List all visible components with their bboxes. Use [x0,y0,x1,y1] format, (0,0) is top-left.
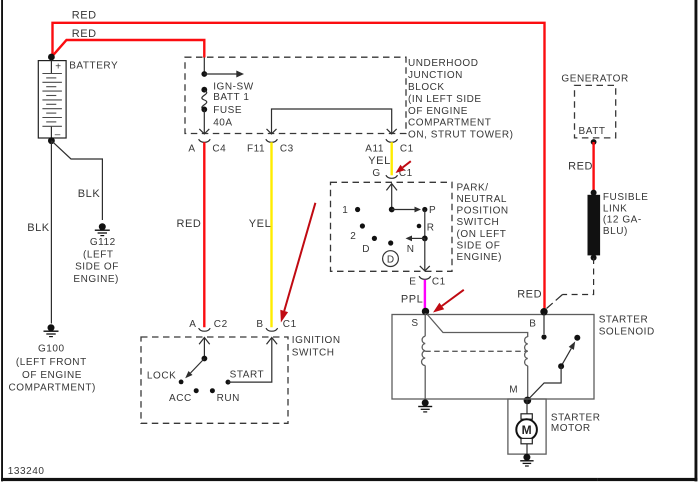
solenoid feed S to hold-in coil [427,314,528,338]
wire PPL to starter solenoid S [424,280,426,309]
svg-text:F11: F11 [247,144,265,155]
svg-text:A11: A11 [365,144,384,155]
svg-text:COMPARTMENT: COMPARTMENT [408,118,491,129]
park/neutral switch internals [355,184,430,271]
svg-text:BATT 1: BATT 1 [213,92,249,103]
svg-text:STARTER: STARTER [551,412,601,423]
wire YEL junction to park/neutral switch [391,142,393,175]
svg-text:POSITION: POSITION [457,206,509,217]
connector A C4 [199,139,211,142]
svg-text:C1: C1 [283,319,297,330]
solenoid B terminal node [540,308,547,315]
svg-text:B: B [256,319,263,330]
wire YEL junction to ignition switch [270,142,272,327]
svg-text:RUN: RUN [217,393,240,404]
svg-text:ENGINE): ENGINE) [73,274,119,285]
label FUSIBLE LINK (12 GA- BLU) [603,192,649,237]
label positions 1 2 D N P R [342,205,436,255]
svg-text:FUSE: FUSE [213,105,242,116]
ground G112 [95,223,110,235]
svg-text:JUNCTION: JUNCTION [408,70,463,81]
wire RED battery to junction B1 (top) [53,23,545,311]
wire RED generator to fusible link [592,142,594,192]
svg-text:M: M [509,385,518,396]
wire BLK battery to G100 [50,141,52,324]
svg-text:C4: C4 [212,144,226,155]
connector A11 C1 [386,139,398,142]
svg-text:SWITCH: SWITCH [292,347,335,358]
generator terminal node [591,139,597,145]
svg-text:(LEFT FRONT: (LEFT FRONT [16,357,87,368]
starter motor [516,400,537,454]
svg-text:P: P [429,205,436,216]
svg-text:2: 2 [350,231,356,242]
svg-text:NEUTRAL: NEUTRAL [457,194,508,205]
svg-text:ENGINE): ENGINE) [457,252,503,263]
solenoid switch blade [527,335,580,401]
generator dashed box [575,85,616,137]
label STARTER SOLENOID [599,315,655,338]
svg-text:SOLENOID: SOLENOID [599,327,655,338]
label UNDERHOOD JUNCTION BLOCK [408,58,513,140]
svg-text:YEL: YEL [368,155,390,167]
svg-text:R: R [427,223,435,234]
border frame left [1,0,3,481]
svg-text:S: S [411,318,418,329]
svg-text:RED: RED [177,218,202,230]
svg-text:A: A [188,144,195,155]
label STARTER MOTOR [551,412,601,434]
svg-text:LOCK: LOCK [147,371,176,382]
circled D indicator [383,251,399,267]
annotation arrow at ignition B C1 [280,203,315,323]
svg-text:IGN-SW: IGN-SW [213,81,254,92]
contact RUN [210,388,215,393]
connector A C2 [199,328,211,331]
svg-text:133240: 133240 [8,466,45,477]
svg-text:C1: C1 [432,277,446,288]
junction block dashed box [185,57,406,133]
svg-text:(ON LEFT: (ON LEFT [457,229,507,240]
junction block internal bus F11 to A11 [267,109,397,134]
solenoid B contact stub [541,314,546,340]
svg-text:G112: G112 [90,237,116,248]
solenoid S terminal node [422,308,429,315]
annotation arrow at G C1 [396,161,411,173]
battery B1 [38,61,66,141]
ground at solenoid coil [418,399,432,412]
wire RED junction to ignition switch [203,142,205,327]
svg-text:LINK: LINK [603,203,627,214]
svg-text:RED: RED [517,288,542,300]
svg-text:BLK: BLK [27,222,50,234]
svg-text:OF ENGINE: OF ENGINE [408,106,468,117]
svg-text:ON, STRUT TOWER): ON, STRUT TOWER) [408,130,513,141]
svg-text:C3: C3 [280,144,294,155]
svg-text:B: B [529,318,536,329]
svg-text:–: – [55,130,61,141]
svg-text:G100: G100 [38,344,65,355]
svg-text:START: START [230,370,265,381]
svg-text:(12 GA-: (12 GA- [603,215,642,226]
solenoid hold-in coil (right) [525,337,528,401]
svg-text:(LEFT: (LEFT [83,249,114,260]
battery negative junction node [48,137,55,144]
label fuse IGN-SW BATT 1 FUSE 40A [213,81,254,128]
svg-text:1: 1 [342,205,348,216]
contact START wire to B C1 [226,338,278,385]
svg-text:BLOCK: BLOCK [408,82,445,93]
svg-text:SIDE OF: SIDE OF [457,241,501,252]
label G112 (LEFT SIDE OF ENGINE) [73,237,119,285]
wire RED battery to fuse (second) [52,40,205,58]
svg-text:SWITCH: SWITCH [457,217,500,228]
svg-text:C2: C2 [214,319,228,330]
svg-text:SIDE OF: SIDE OF [75,262,119,273]
svg-text:FUSIBLE: FUSIBLE [603,192,649,203]
label IGNITION SWITCH [292,335,341,358]
border frame right [695,0,698,481]
svg-text:+: + [55,62,61,73]
dashed wire fusible link to starter solenoid B [547,258,594,309]
svg-text:YEL: YEL [249,218,271,230]
svg-text:D: D [387,254,394,265]
svg-text:(IN LEFT SIDE: (IN LEFT SIDE [408,94,482,105]
svg-text:C1: C1 [400,144,414,155]
ground at starter motor [520,454,533,466]
svg-text:40A: 40A [213,118,232,129]
svg-text:E: E [409,277,416,288]
svg-text:COMPARTMENT): COMPARTMENT) [9,382,96,393]
solenoid pull-in coil (left) [422,313,426,403]
fuse IGN-SW BATT 1 40A [199,58,244,134]
annotation arrow at S terminal [433,290,464,313]
svg-text:D: D [362,244,370,255]
svg-text:BATTERY: BATTERY [69,61,118,72]
svg-text:RED: RED [568,161,593,173]
ignition switch dashed box [141,337,288,423]
starter solenoid box [392,315,594,400]
svg-text:STARTER: STARTER [599,315,649,326]
fusible link (12 GA-BLU) [588,190,601,261]
solenoid M terminal node [524,397,532,405]
svg-text:N: N [407,244,415,255]
border frame bottom [1,478,597,481]
svg-text:RED: RED [72,10,97,22]
svg-text:PPL: PPL [401,294,423,306]
park/neutral position switch dashed box [331,182,453,271]
contact ACC [194,388,199,393]
label G100 (LEFT FRONT OF ENGINE COMPARTMENT) [9,344,96,394]
label PARK/NEUTRAL POSITION SWITCH [457,182,509,263]
svg-text:PARK/: PARK/ [457,182,489,193]
starter motor enclosure [508,399,546,454]
wire BLK battery to G112 [51,141,102,220]
dashed link between coils [425,350,528,352]
svg-text:ACC: ACC [169,393,192,404]
connector E C1 [419,276,431,279]
svg-text:RED: RED [72,28,97,40]
connector B C1 (ignition) [266,328,278,331]
svg-text:G: G [372,168,380,179]
svg-text:BLU): BLU) [603,226,628,237]
svg-text:BLK: BLK [78,188,101,200]
ground G100 [44,324,59,336]
svg-text:MOTOR: MOTOR [551,423,591,434]
svg-text:BATT: BATT [579,126,606,137]
svg-text:IGNITION: IGNITION [292,335,341,346]
connector F11 C3 [266,139,278,142]
battery positive junction node [48,54,55,61]
ignition switch wiper [179,338,210,385]
svg-text:M: M [522,423,532,437]
svg-text:GENERATOR: GENERATOR [561,73,628,84]
svg-text:UNDERHOOD: UNDERHOOD [408,58,479,69]
svg-text:OF ENGINE: OF ENGINE [22,370,82,381]
svg-text:A: A [189,319,196,330]
connector G C1 [386,175,398,178]
